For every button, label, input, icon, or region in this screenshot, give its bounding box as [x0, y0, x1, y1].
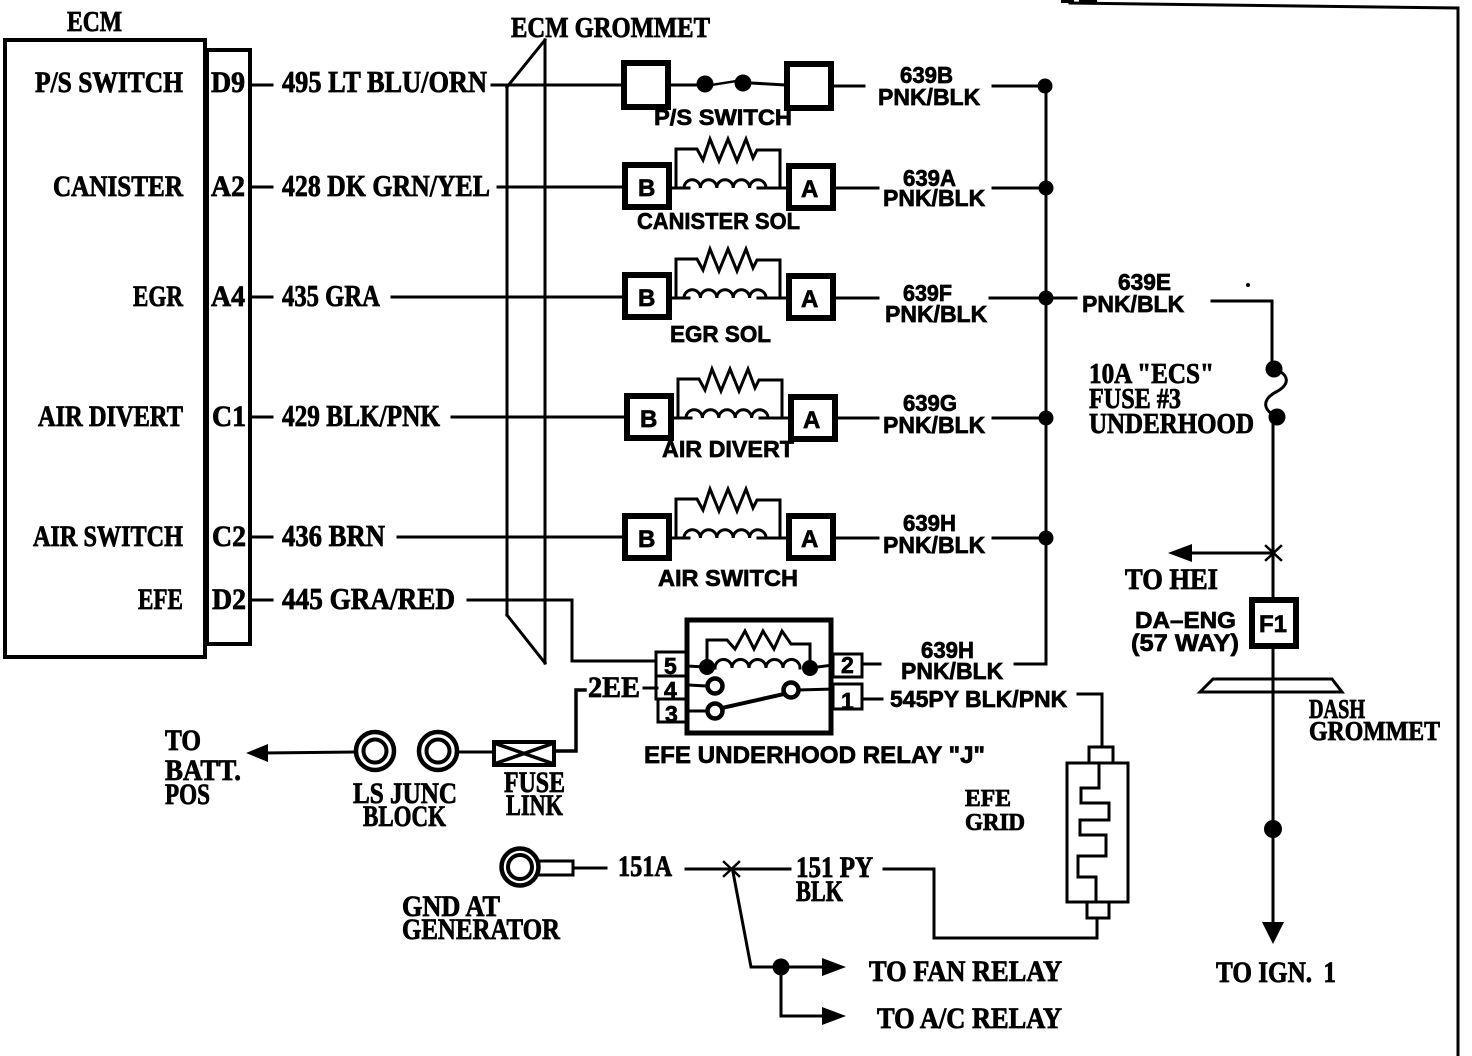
svg-text:PNK/BLK: PNK/BLK [883, 412, 986, 438]
relay pin 5 [656, 652, 687, 676]
svg-text:BLK: BLK [796, 875, 843, 908]
relay pin 1 [833, 684, 862, 709]
svg-text:UNDERHOOD: UNDERHOOD [1089, 408, 1254, 440]
air divert terminal A [791, 397, 835, 439]
svg-text:GROMMET: GROMMET [1309, 716, 1440, 746]
pin A2 stub [252, 186, 272, 189]
svg-text:435 GRA: 435 GRA [282, 278, 380, 313]
ECM pin strip [207, 50, 250, 644]
wire to HEI [1190, 552, 1273, 555]
wire [833, 297, 878, 300]
relay pin 3 [658, 699, 687, 722]
P/S switch right terminal [787, 64, 831, 108]
EFE grid body [1067, 763, 1128, 902]
LS junction block terminal 2 [419, 732, 457, 770]
wire to bus [993, 417, 1046, 420]
svg-text:TO HEI: TO HEI [1125, 563, 1218, 596]
wire to pin 2 [818, 665, 833, 667]
wire 445 GRA/RED to relay [468, 600, 656, 661]
svg-text:CANISTER SOL: CANISTER SOL [637, 208, 800, 234]
pin A4 stub [252, 296, 272, 299]
P/S switch contact right [735, 75, 752, 92]
svg-text:PNK/BLK: PNK/BLK [883, 532, 986, 558]
svg-text:545PY BLK/PNK: 545PY BLK/PNK [890, 686, 1068, 712]
ECM grommet [507, 12, 710, 663]
relay coil node right [802, 660, 818, 676]
arrow to IGN 1 [1262, 922, 1284, 944]
wire to fan relay [781, 966, 824, 969]
relay coil wire [686, 666, 707, 667]
svg-text:LINK: LINK [506, 789, 563, 822]
P/S switch left terminal [624, 63, 668, 107]
relay coil node left [699, 659, 715, 675]
grommet left line [506, 87, 509, 615]
svg-text:ECM: ECM [67, 6, 122, 38]
2EE stub to pin 4 [644, 687, 657, 690]
svg-text:B: B [638, 526, 655, 553]
svg-text:EGR SOL: EGR SOL [670, 321, 771, 347]
wire to a/c relay [781, 967, 824, 1016]
svg-text:TO: TO [165, 724, 201, 757]
svg-text:B: B [638, 175, 655, 202]
grommet right line [544, 40, 547, 663]
svg-text:436 BRN: 436 BRN [282, 518, 385, 553]
svg-text:495 LT BLU/ORN: 495 LT BLU/ORN [282, 64, 487, 99]
fuse element [1266, 369, 1287, 417]
canister sol terminal A [789, 166, 833, 208]
wire [668, 84, 698, 87]
svg-text:A: A [803, 407, 820, 434]
relay coil [715, 660, 800, 669]
fuse link [494, 742, 554, 765]
wire [751, 83, 786, 85]
svg-text:PNK/BLK: PNK/BLK [901, 658, 1004, 684]
wire 429 to air divert sol [452, 416, 627, 419]
svg-text:1: 1 [841, 688, 854, 714]
svg-text:AIR DIVERT: AIR DIVERT [38, 400, 183, 433]
wire 428 to canister sol [498, 186, 625, 189]
svg-text:AIR DIVERT: AIR DIVERT [662, 436, 794, 462]
wire 436 to air switch sol [398, 536, 625, 539]
canister sol terminal B [625, 165, 669, 207]
wire [831, 85, 864, 88]
arrow to HEI [1168, 544, 1192, 562]
dash grommet [1200, 679, 1342, 692]
svg-text:EFE: EFE [138, 583, 183, 616]
branch wire from splice [733, 872, 773, 967]
relay pin 4 [656, 676, 687, 699]
wire 639E from bus [1052, 297, 1076, 300]
EFE grid + grounds [165, 724, 1128, 1035]
speck [1246, 283, 1250, 287]
junction fan/ac [773, 959, 790, 976]
wire to bus [990, 297, 1044, 300]
svg-text:BLOCK: BLOCK [363, 800, 447, 833]
svg-text:B: B [638, 285, 655, 312]
junction on ign wire [1264, 820, 1282, 838]
right fuse branch [1052, 269, 1440, 989]
grommet bottom diagonal [507, 615, 545, 663]
grommet top diagonal [507, 40, 545, 87]
svg-text:TO A/C RELAY: TO A/C RELAY [877, 1002, 1062, 1035]
P/S switch contact left [697, 76, 714, 93]
arrow to battery positive [246, 744, 268, 762]
wire through dash grommet [1272, 646, 1275, 828]
EGR sol terminal B [625, 275, 669, 317]
air divert terminal B [627, 396, 671, 438]
wire to bus [993, 187, 1046, 190]
svg-text:EFE UNDERHOOD RELAY "J": EFE UNDERHOOD RELAY "J" [644, 742, 985, 769]
svg-text:A: A [801, 176, 818, 203]
svg-text:PNK/BLK: PNK/BLK [1082, 291, 1185, 317]
wire pin1 stub [865, 698, 882, 701]
air switch terminal B [625, 516, 669, 558]
pin D2 stub [252, 599, 272, 602]
svg-text:ECM GROMMET: ECM GROMMET [511, 12, 710, 44]
svg-text:445 GRA/RED: 445 GRA/RED [282, 581, 455, 616]
connector F1 [1252, 600, 1296, 646]
svg-text:D9: D9 [211, 66, 245, 99]
wire to bus [993, 85, 1044, 88]
svg-text:PNK/BLK: PNK/BLK [883, 185, 986, 211]
wire 435 to EGR sol [392, 296, 625, 299]
pin C1 stub [252, 416, 272, 419]
relay resistor [707, 631, 810, 667]
arrow to fan relay [822, 958, 846, 976]
wire 545PY to EFE grid [1078, 694, 1102, 747]
ECM connector block [5, 6, 490, 657]
stub [573, 867, 606, 870]
wire contact to pin 1 [798, 689, 833, 690]
relay contact common [784, 683, 799, 698]
arrow to a/c relay [822, 1007, 846, 1025]
relay contact pin4 [708, 679, 723, 694]
svg-text:F1: F1 [1259, 611, 1287, 638]
svg-text:PNK/BLK: PNK/BLK [878, 84, 981, 110]
wire to LS junction block [264, 752, 355, 753]
svg-text:A: A [801, 526, 818, 553]
svg-text:151A: 151A [618, 850, 672, 883]
junction 639A [1039, 181, 1054, 196]
EGR sol terminal A [789, 276, 833, 318]
power bus 639 PNK/BLK [1015, 79, 1054, 665]
svg-text:428 DK GRN/YEL: 428 DK GRN/YEL [282, 168, 490, 203]
EFE relay [554, 620, 1102, 769]
wire down from fuse [1272, 425, 1275, 600]
splice X 151 [724, 862, 739, 876]
svg-text:B: B [640, 406, 657, 433]
EGR sol coil assembly [671, 249, 788, 298]
svg-text:GRID: GRID [965, 810, 1025, 836]
svg-text:3: 3 [665, 701, 678, 727]
svg-text:POS: POS [165, 778, 210, 811]
svg-text:GENERATOR: GENERATOR [402, 913, 560, 946]
wire pin2 to bus [865, 663, 880, 666]
svg-text:C1: C1 [212, 400, 246, 433]
wire 495 to P/S switch [492, 84, 622, 87]
wire [833, 537, 878, 540]
splice X to HEI [1266, 546, 1281, 560]
svg-text:TO IGN. 1: TO IGN. 1 [1216, 956, 1336, 989]
wire to fuse [1212, 301, 1272, 366]
svg-text:AIR SWITCH: AIR SWITCH [658, 565, 798, 591]
rows / components [392, 62, 1046, 661]
ground ring terminal at generator [502, 849, 539, 886]
wire top edge [1070, 3, 1458, 1056]
svg-text:(57 WAY): (57 WAY) [1131, 630, 1239, 657]
LS junction block terminal 1 [356, 732, 394, 770]
junction 639F [1039, 291, 1054, 306]
svg-text:A4: A4 [211, 280, 245, 313]
relay blade [722, 694, 784, 708]
wire 2EE to fuse link [554, 690, 585, 751]
cut-off text fragment [1061, 0, 1074, 3]
pin C2 stub [252, 536, 272, 539]
air divert coil assembly [673, 369, 790, 418]
air switch terminal A [789, 516, 833, 558]
relay pin 2 [833, 654, 862, 677]
pin D9 stub [252, 84, 272, 87]
svg-text:P/S SWITCH: P/S SWITCH [35, 66, 183, 99]
ring terminal tab [537, 861, 573, 875]
relay J body [687, 620, 831, 733]
wire to bus [993, 537, 1046, 540]
wire [458, 751, 494, 754]
wire to ign [1272, 829, 1275, 926]
svg-text:429 BLK/PNK: 429 BLK/PNK [282, 398, 440, 433]
svg-text:P/S SWITCH: P/S SWITCH [654, 105, 792, 130]
wire 151 PY to EFE grid [884, 869, 1097, 938]
wire [833, 187, 878, 190]
svg-text:2EE: 2EE [588, 671, 640, 704]
svg-text:PNK/BLK: PNK/BLK [885, 301, 988, 327]
frame lines [1061, 0, 1458, 1056]
EFE grid element [1078, 763, 1109, 902]
bus wire vertical [1015, 86, 1046, 664]
svg-text:D2: D2 [212, 583, 246, 616]
air switch coil assembly [671, 489, 788, 538]
canister sol coil assembly [671, 139, 788, 188]
P/S switch blade [705, 80, 743, 86]
svg-text:C2: C2 [212, 520, 246, 553]
svg-text:2: 2 [841, 652, 854, 678]
svg-text:A2: A2 [211, 170, 245, 203]
svg-text:EGR: EGR [133, 280, 183, 313]
wire 151A [686, 868, 790, 871]
junction 639G [1039, 411, 1054, 426]
svg-text:A: A [801, 286, 818, 313]
svg-text:EFE: EFE [965, 786, 1011, 812]
svg-text:TO FAN RELAY: TO FAN RELAY [869, 955, 1062, 988]
junction 639B [1038, 79, 1053, 94]
wire [835, 417, 878, 420]
relay contact pin3 [708, 704, 723, 719]
fuse 10A ECS terminal bottom [1269, 409, 1286, 426]
svg-text:CANISTER: CANISTER [53, 170, 183, 203]
fuse 10A ECS terminal top [1266, 361, 1283, 378]
ECM box [5, 40, 205, 657]
EFE grid bottom terminal [1087, 902, 1109, 918]
junction 639H [1039, 531, 1054, 546]
EFE grid top terminal [1089, 747, 1113, 763]
svg-text:AIR SWITCH: AIR SWITCH [33, 520, 183, 553]
